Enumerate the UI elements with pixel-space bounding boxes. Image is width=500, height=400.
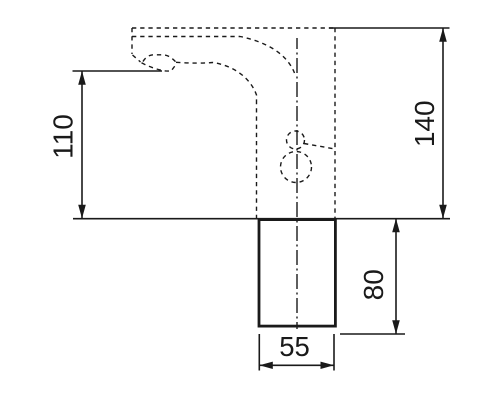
140 extension line at faucet top bbox=[329, 27, 450, 29]
arrowhead 55 right bbox=[321, 362, 335, 369]
140 dimension line bbox=[442, 28, 444, 219]
arrowhead 80 bottom (down) bbox=[392, 320, 400, 334]
aerator bump on spout underside bbox=[143, 55, 176, 62]
faucet spout inner top edge curving into body bbox=[132, 37, 295, 74]
arrowhead 80 top (up) bbox=[392, 219, 400, 233]
svg-text:80: 80 bbox=[358, 269, 389, 300]
outlet nozzle outline bbox=[142, 63, 177, 71]
base rectangle (solid body) bbox=[259, 220, 335, 327]
svg-text:140: 140 bbox=[409, 100, 440, 147]
faucet body left edge (dashed vertical) bbox=[256, 100, 258, 218]
svg-text:110: 110 bbox=[48, 114, 79, 159]
arrowhead 55 left bbox=[259, 362, 273, 369]
spout outlet left diagonal bbox=[133, 55, 141, 62]
spout lower edge running right then curving down bbox=[176, 62, 257, 100]
handle pivot small circle bbox=[287, 131, 305, 149]
handle ball large circle bbox=[281, 152, 312, 183]
110 extension line at spout outlet bbox=[73, 70, 163, 72]
svg-text:55: 55 bbox=[279, 331, 310, 362]
mounting surface line bbox=[73, 218, 450, 220]
arrowhead 140 bottom (down) bbox=[439, 205, 447, 219]
handle lever line to body edge bbox=[304, 144, 335, 150]
arrowhead 110 top (up) bbox=[78, 71, 86, 85]
110 dimension line bbox=[81, 71, 83, 219]
55 right extension line bbox=[333, 334, 335, 371]
arrowhead 140 top (up) bbox=[439, 28, 447, 42]
55 left extension line bbox=[258, 334, 260, 371]
faucet body right edge (dashed vertical) bbox=[334, 28, 336, 218]
vertical centerline (dash-dot) bbox=[296, 38, 298, 329]
faucet spout top edge (hidden/dashed) bbox=[132, 27, 335, 29]
arrowhead 110 bottom (down) bbox=[78, 205, 86, 219]
80 dimension line bbox=[395, 219, 397, 335]
faucet spout left end vertical edge bbox=[131, 28, 133, 54]
55 dimension line bbox=[259, 364, 334, 366]
80 bottom extension line bbox=[340, 333, 405, 335]
